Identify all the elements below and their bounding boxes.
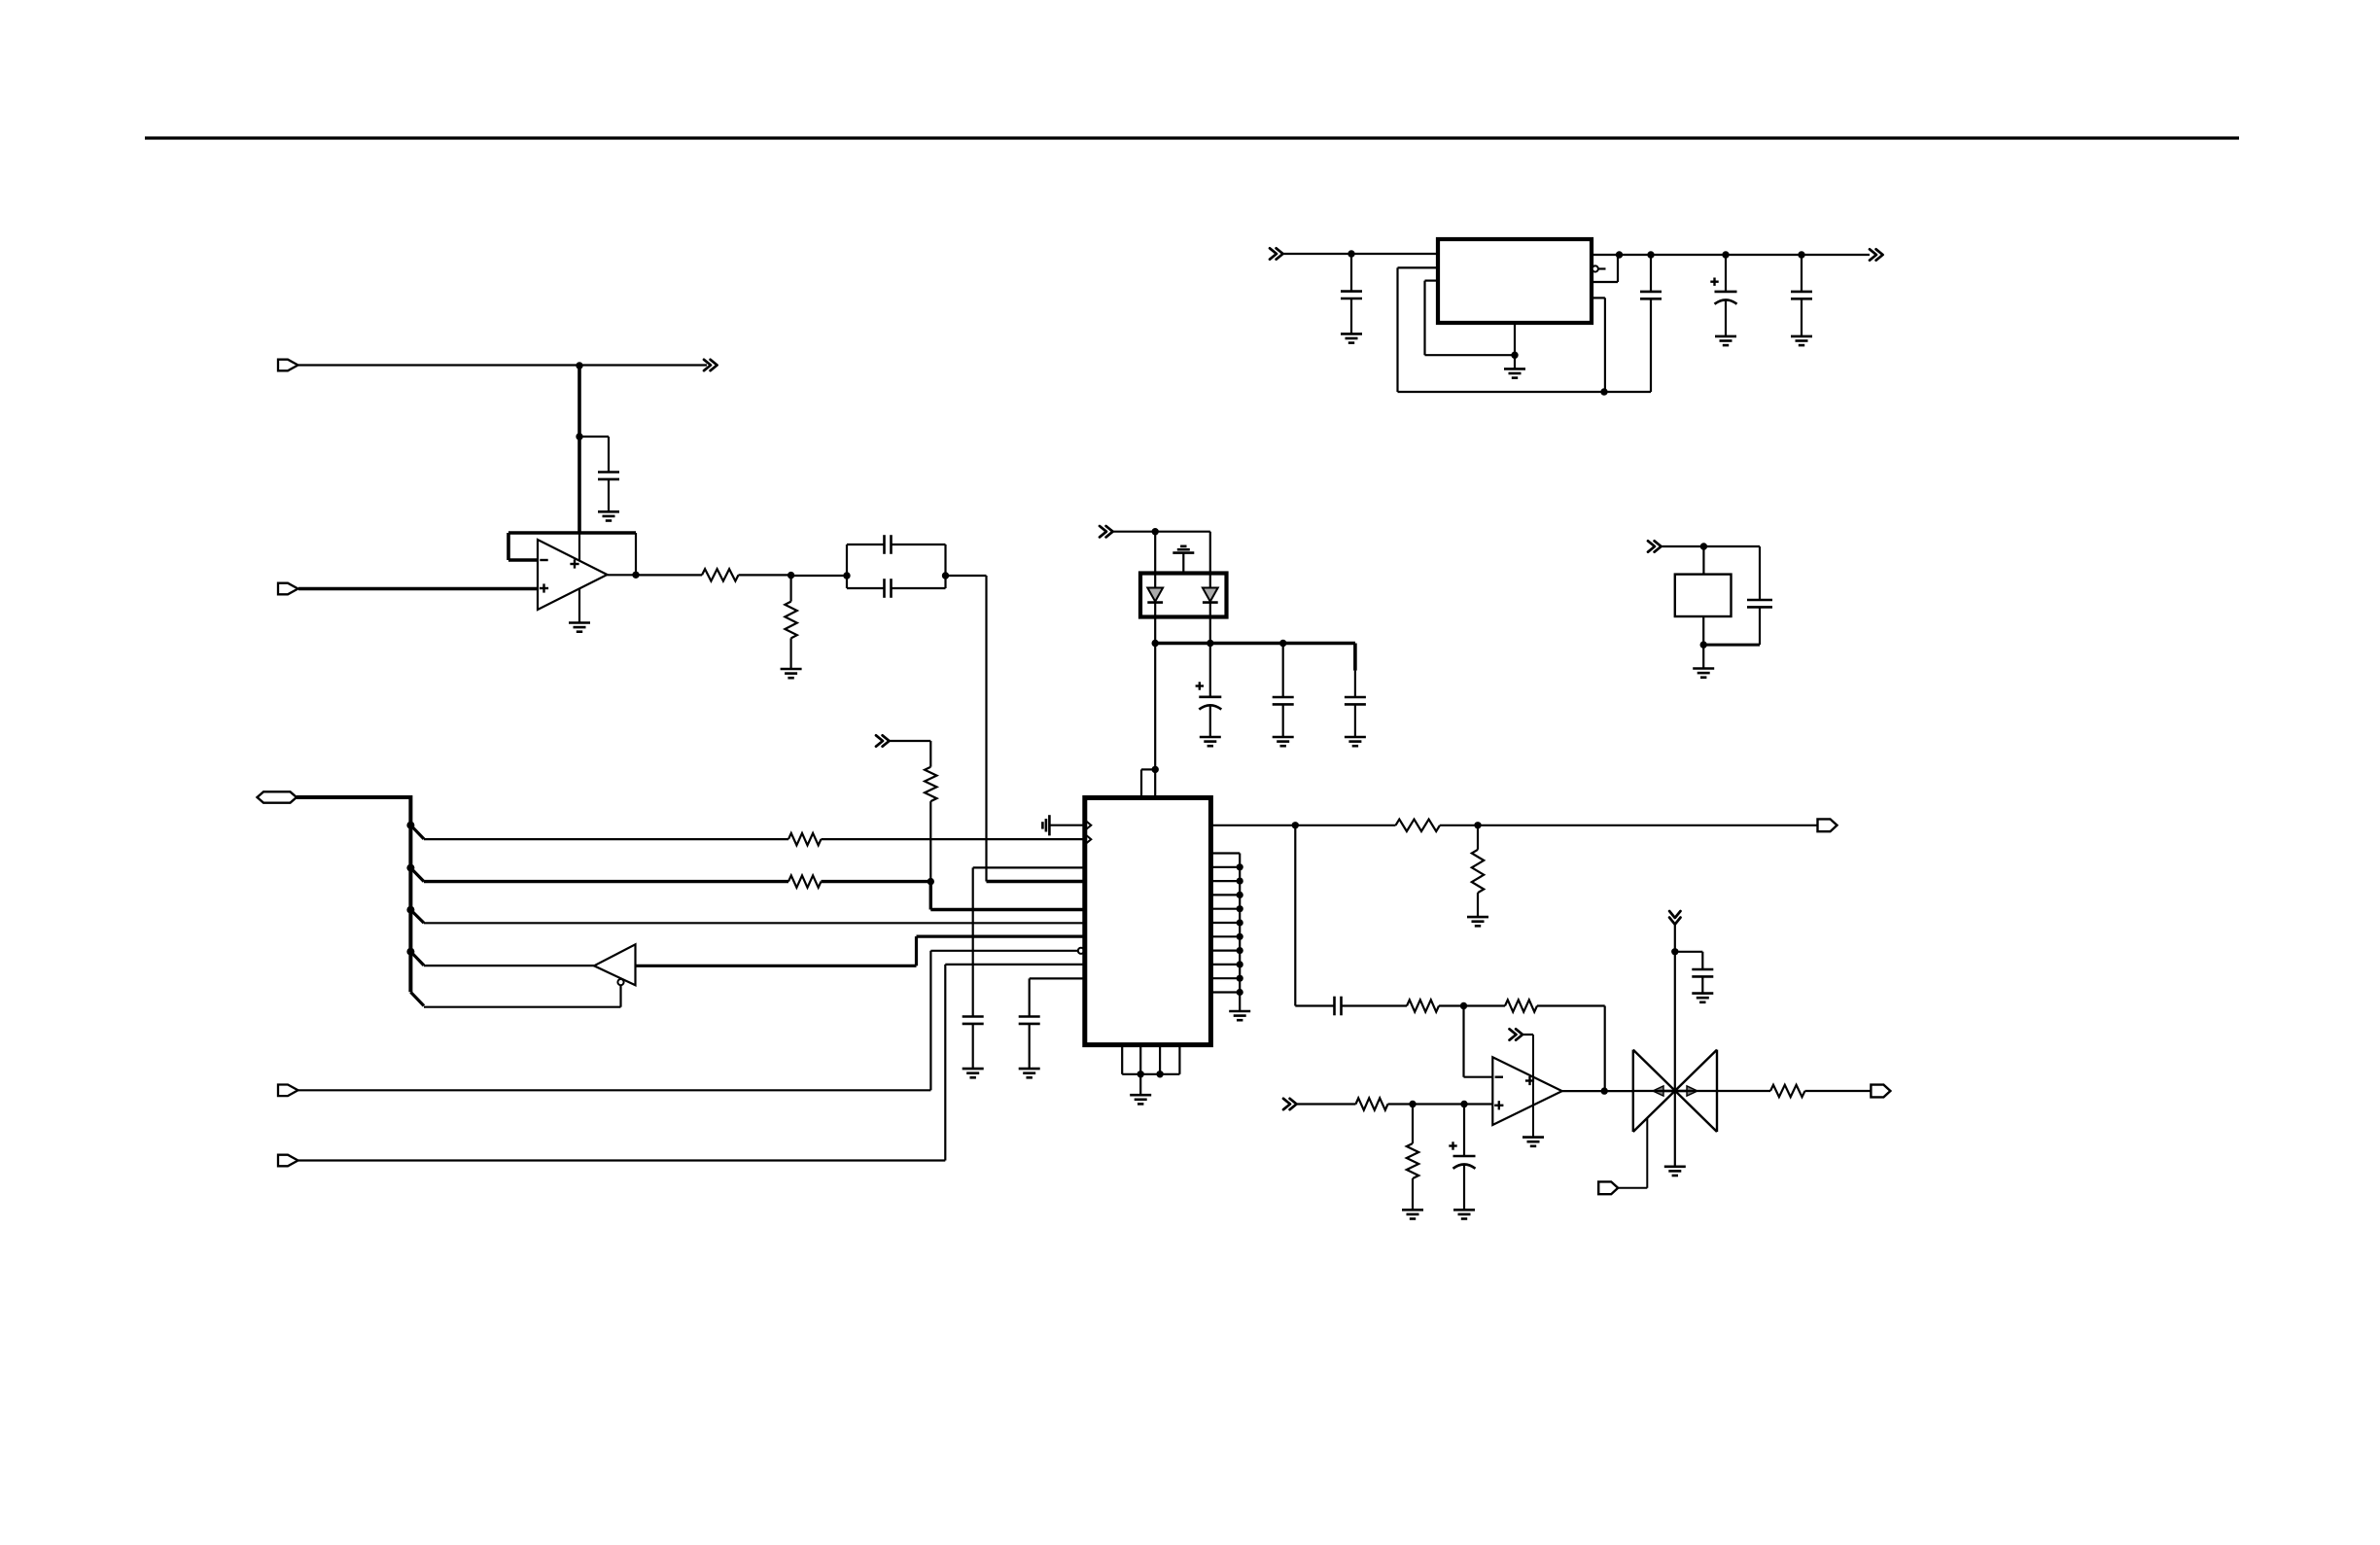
node Y junction bbox=[1279, 640, 1286, 647]
capacitor C2 bbox=[883, 535, 886, 554]
ground R11 bbox=[1402, 1209, 1423, 1211]
ground attenuator center bbox=[1664, 1166, 1686, 1169]
wire C1 to ground bbox=[608, 479, 610, 511]
off-page arrow diode supply bbox=[1100, 526, 1106, 537]
wire pin C drop bbox=[972, 867, 974, 1016]
off-page arrow down feed bbox=[1669, 911, 1680, 918]
bus tap 1 entry bbox=[410, 825, 424, 839]
connector J3 bus entry pad bbox=[258, 791, 297, 802]
wire U2 right pin 11 bbox=[1210, 991, 1240, 993]
node G junction bbox=[927, 878, 934, 885]
wire node C to R1 bbox=[636, 574, 702, 576]
wire C9 to ground bbox=[1801, 298, 1802, 336]
U2 pin A clock mark bbox=[1086, 821, 1092, 830]
U2 pin H inverted circle bbox=[1078, 948, 1084, 954]
wire C9 top bbox=[1801, 255, 1802, 292]
wire U2 right pin 6 bbox=[1210, 922, 1240, 924]
wire C15 to ground bbox=[1463, 1165, 1465, 1211]
wire C7 top bbox=[1650, 255, 1652, 292]
wire feedback right U1 bbox=[635, 533, 637, 575]
node I junction bbox=[1137, 1071, 1144, 1077]
wire node D to R2 bbox=[789, 576, 791, 602]
wire R12 to J8 bbox=[1805, 1090, 1872, 1092]
wire supply rail bold bbox=[1155, 642, 1355, 646]
node U junction bbox=[1700, 641, 1707, 648]
connector J4 pad bbox=[278, 1085, 298, 1097]
wire J4 riser bbox=[929, 951, 931, 1091]
node W junction bbox=[1152, 640, 1159, 647]
ground C4 bbox=[962, 1068, 984, 1071]
node Z junction bbox=[1460, 1002, 1467, 1009]
U5 plus supply label bbox=[1525, 1079, 1534, 1081]
wire attenuator enable drop bbox=[1646, 1118, 1648, 1188]
wire node U to ground bbox=[1702, 645, 1704, 668]
off-page arrow reg output bbox=[1870, 249, 1876, 260]
wire C13 drop bold bbox=[1353, 644, 1357, 671]
capacitor C12 bbox=[1273, 696, 1294, 699]
wire R10 to node AA bbox=[1388, 1103, 1414, 1105]
resistor R1 bbox=[702, 569, 739, 580]
wire U2 right pin 8 bbox=[1210, 949, 1240, 951]
capacitor C6 bbox=[1341, 290, 1362, 293]
wire R1 to node D bbox=[739, 574, 791, 576]
wire J4 long bbox=[298, 1089, 930, 1091]
wire J1 to node A bbox=[298, 364, 579, 366]
node right-bus junction 9 bbox=[1237, 975, 1243, 982]
ground C15 bbox=[1453, 1209, 1475, 1211]
node X junction bbox=[1207, 640, 1213, 647]
wire R5 to node L bbox=[1440, 825, 1478, 826]
wire U4 pin3 drop bbox=[1592, 297, 1605, 298]
wire bottom tie to ground bbox=[1139, 1074, 1141, 1095]
wire C3 bottom right bbox=[892, 587, 946, 589]
wire pin J drop bbox=[1029, 978, 1031, 1016]
wire U4 feedback loop bbox=[1592, 281, 1618, 283]
node Q junction bbox=[1647, 251, 1654, 258]
bus tap 3 entry bbox=[410, 910, 424, 924]
node right-bus junction 6 bbox=[1237, 933, 1243, 940]
capacitor C3 bbox=[883, 579, 886, 598]
wire C5 to ground bbox=[1029, 1024, 1031, 1069]
wire C2 top left bbox=[847, 544, 885, 545]
ground U5 supply bbox=[1522, 1136, 1544, 1139]
wire enable to J7 bbox=[1619, 1187, 1647, 1189]
wire U2 right pin 7 bbox=[1210, 935, 1240, 937]
IC U2 body bbox=[1085, 798, 1211, 1045]
wire node T right bbox=[1703, 545, 1760, 547]
wire J5 long bbox=[298, 1159, 945, 1161]
wire J5 riser bbox=[944, 965, 946, 1161]
capacitor C8 polarized bbox=[1715, 291, 1737, 294]
node N junction bbox=[1600, 388, 1607, 395]
node E junction bbox=[843, 572, 850, 579]
node right-bus junction 8 bbox=[1237, 961, 1243, 967]
wire U4 adj path bbox=[1425, 280, 1439, 282]
wire C11 top bbox=[1209, 644, 1211, 697]
ground U1 supply bbox=[569, 621, 590, 624]
node AA junction bbox=[1409, 1101, 1416, 1107]
node M junction bbox=[1347, 250, 1354, 257]
connector J2 input pad bbox=[278, 583, 298, 595]
capacitor C5 bbox=[1019, 1015, 1040, 1018]
wire tap5 to U3 enable bbox=[424, 1006, 621, 1008]
bus tap 2 entry bbox=[410, 868, 424, 882]
wire U2 right pin 9 bbox=[1210, 964, 1240, 966]
wire tap2 to R4 bold bbox=[424, 880, 788, 883]
U3 enable circle bbox=[617, 979, 623, 985]
ground C12 bbox=[1273, 736, 1294, 739]
node S junction bbox=[1798, 251, 1804, 258]
node V junction bbox=[1152, 528, 1159, 535]
wire xtal input bbox=[1660, 545, 1703, 547]
wire to U2 pin H bbox=[930, 950, 1077, 952]
U1 plus supply label bbox=[570, 563, 578, 565]
wire C7 bottom to rail bbox=[1650, 298, 1652, 392]
bus vertical bold bbox=[408, 795, 412, 992]
wire node AB down bbox=[1463, 1105, 1465, 1157]
U5 minus label bbox=[1495, 1075, 1503, 1077]
wire U2 right pin 3 bbox=[1210, 880, 1240, 882]
ground C1 bbox=[598, 510, 619, 513]
wire C14 to R8 bbox=[1342, 1004, 1408, 1006]
wire node Z down bbox=[1462, 1006, 1464, 1077]
ground C8 bbox=[1715, 335, 1736, 338]
wire U2 pin J stub bbox=[1030, 977, 1085, 979]
wire bottom rail right bbox=[1604, 391, 1651, 393]
crystal Y1 body bbox=[1675, 575, 1732, 616]
wire node AB to U5 bbox=[1464, 1103, 1492, 1105]
wire U2 bottom pin 2 bbox=[1139, 1045, 1141, 1074]
wire C10 bottom bbox=[1759, 607, 1761, 645]
wire node AD down through attenuator bbox=[1674, 952, 1676, 1167]
wire inverting stub U1 bold bbox=[508, 558, 538, 562]
wire inverted ground stem bbox=[1182, 553, 1184, 574]
U1 minus label bbox=[540, 559, 547, 561]
wire through attenuator bbox=[1633, 1090, 1717, 1092]
node T junction bbox=[1700, 543, 1707, 549]
wire long vertical to U2 pin D bbox=[985, 576, 987, 882]
wire feedback top U1 bold bbox=[508, 531, 636, 535]
ground Y1 bbox=[1693, 667, 1714, 670]
U2 pin A rotated ground bbox=[1048, 815, 1051, 835]
diode D2 bbox=[1209, 574, 1211, 588]
resistor R5 bbox=[1396, 820, 1441, 831]
wire node AA to node AB bbox=[1413, 1103, 1464, 1105]
attenuator arrowhead left bbox=[1653, 1086, 1663, 1096]
wire node D to node E bbox=[791, 575, 847, 577]
node J junction bbox=[1156, 1071, 1163, 1077]
wire node B to C1 bbox=[579, 436, 609, 438]
capacitor C14 series bbox=[1333, 997, 1336, 1016]
ground R2 bbox=[781, 668, 802, 671]
wire to U5 inverting bbox=[1464, 1076, 1493, 1078]
wire node L to pad bbox=[1478, 825, 1818, 826]
wire U1 output bbox=[608, 574, 637, 576]
U2 pin B clock mark bbox=[1086, 834, 1092, 844]
capacitor C13 bbox=[1345, 696, 1366, 699]
wire node K corner bbox=[1295, 1004, 1334, 1006]
wire diode rail to U2 top bbox=[1154, 644, 1156, 798]
C15 plus label bbox=[1449, 1144, 1456, 1146]
ground U2 right bus bbox=[1229, 1010, 1250, 1013]
resistor R10 bbox=[1356, 1098, 1388, 1109]
wire C13 to ground bbox=[1354, 704, 1356, 737]
wire C13 drop bbox=[1354, 671, 1356, 697]
wire node AD branch bbox=[1675, 951, 1703, 953]
ground R6 bbox=[1467, 916, 1488, 919]
bus tap 5 entry bbox=[410, 992, 424, 1005]
wire R9 corner down bbox=[1604, 1006, 1606, 1092]
wire R3 to U2 pin B bbox=[822, 838, 1085, 840]
wire U2 bottom pin 1 bbox=[1121, 1045, 1123, 1074]
wire mid corner down bbox=[929, 741, 931, 767]
wire C8 top bbox=[1725, 255, 1727, 292]
wire node V down D1 bbox=[1154, 532, 1156, 574]
wire U5 supply bbox=[1522, 1034, 1534, 1036]
node H junction bbox=[1152, 766, 1159, 773]
U4 inhibit circle bbox=[1592, 265, 1598, 271]
wire node Z to R9 bbox=[1464, 1004, 1506, 1006]
wire U2 bottom pin 4 bbox=[1178, 1045, 1180, 1074]
bus tap 4 junction bbox=[406, 948, 414, 956]
off-page arrow U5 input bbox=[1283, 1099, 1290, 1109]
wire node G to U2 pin E bold bbox=[930, 908, 1085, 911]
connector J7 pad bbox=[1598, 1181, 1618, 1194]
wire C3 bottom left bbox=[847, 587, 885, 589]
ground C11 bbox=[1200, 736, 1221, 739]
attenuator diagonal 1 bbox=[1633, 1050, 1717, 1132]
wire U2 right pin 2 bbox=[1210, 866, 1240, 868]
wire D2 to rail bbox=[1209, 617, 1211, 644]
wire C12 top bbox=[1282, 644, 1284, 698]
attenuator arrow shaft bbox=[1661, 1090, 1690, 1092]
wire R6 to ground bbox=[1477, 893, 1479, 917]
node AD junction bbox=[1671, 948, 1678, 955]
wire J2 to U1 noninverting bold bbox=[298, 587, 538, 591]
wire C16 to ground bbox=[1701, 976, 1703, 993]
ground C9 bbox=[1791, 335, 1812, 338]
U5 plus input label bbox=[1494, 1105, 1503, 1106]
connector J8 output pad bbox=[1871, 1085, 1890, 1098]
off-page arrow U5 supply bbox=[1510, 1029, 1517, 1039]
wire R8 to node Z bbox=[1439, 1004, 1464, 1006]
wire C6 to ground bbox=[1350, 298, 1352, 334]
wire mid arrow right bbox=[888, 740, 930, 742]
wire C2C3 right vertical bbox=[944, 544, 946, 588]
wire U5 output bbox=[1562, 1090, 1633, 1092]
capacitor C15 polarized bbox=[1453, 1155, 1476, 1158]
wire reg input bbox=[1281, 253, 1438, 255]
node right-bus junction 1 bbox=[1237, 863, 1243, 870]
inverter U3 buffer bbox=[594, 944, 636, 985]
wire U2 right pin 10 bbox=[1210, 977, 1240, 979]
wire U2 pin C stub bbox=[973, 866, 1085, 868]
connector J1 input pad bbox=[278, 360, 298, 371]
capacitor C7 bbox=[1640, 291, 1662, 294]
capacitor C1 bbox=[598, 471, 619, 474]
wire arrow to node AD bbox=[1674, 923, 1676, 952]
wire U4 output bbox=[1592, 254, 1870, 256]
node L junction bbox=[1474, 822, 1481, 828]
resistor R8 bbox=[1407, 1000, 1439, 1011]
wire U3 output up bold bbox=[915, 936, 918, 966]
off-page arrow mid bbox=[876, 735, 883, 746]
node P junction bbox=[1616, 251, 1623, 258]
wire node A to off-page arrow bbox=[579, 364, 707, 366]
node O junction bbox=[1511, 352, 1518, 359]
wire U5 input to R10 bbox=[1295, 1103, 1356, 1105]
bus tap 1 junction bbox=[406, 822, 414, 829]
node A junction bbox=[576, 362, 582, 369]
wire U2 right tie bus bbox=[1239, 854, 1241, 1012]
wire node AA down bbox=[1412, 1105, 1414, 1144]
bus tap 3 junction bbox=[406, 906, 414, 914]
attenuator left edge bbox=[1632, 1050, 1634, 1132]
wire node G down bold bbox=[929, 882, 932, 910]
node R junction bbox=[1722, 251, 1729, 258]
resistor R3 bbox=[788, 833, 822, 845]
wire R2 to ground bbox=[789, 638, 791, 669]
node AB junction bbox=[1460, 1101, 1467, 1107]
ground C16 bbox=[1692, 992, 1713, 995]
wire node L to R6 bbox=[1477, 825, 1479, 850]
node B junction bbox=[576, 433, 582, 439]
node right-bus junction 10 bbox=[1237, 989, 1243, 996]
wire U2 right pin 5 bbox=[1210, 908, 1240, 910]
wire C12 to ground bbox=[1282, 704, 1284, 737]
node F junction bbox=[942, 572, 949, 579]
wire node T to Y1 bbox=[1702, 546, 1704, 575]
U4 inhibit dash bbox=[1599, 267, 1606, 269]
resistor R9 bbox=[1505, 1000, 1537, 1011]
inverted ground diode box bbox=[1180, 544, 1186, 547]
node right-bus junction 4 bbox=[1237, 905, 1243, 912]
wire C2C3 left vertical bbox=[846, 544, 848, 588]
wire to U2 pin G bold bbox=[917, 934, 1085, 937]
node K junction bbox=[1292, 822, 1299, 828]
ground U2 bottom bbox=[1130, 1094, 1151, 1097]
off-page arrow reg input bbox=[1270, 248, 1277, 259]
node D junction bbox=[787, 572, 794, 579]
wire node F right bbox=[946, 575, 987, 577]
wire C8 to ground bbox=[1725, 300, 1727, 336]
capacitor C16 bbox=[1692, 968, 1713, 971]
capacitor C9 bbox=[1791, 291, 1812, 294]
connector J5 pad bbox=[278, 1155, 298, 1167]
wire attenuator out to R12 bbox=[1717, 1090, 1770, 1092]
wire D1 to rail bbox=[1154, 617, 1156, 644]
op-amp U5 bbox=[1492, 1057, 1561, 1125]
bus tap 4 entry bbox=[410, 952, 424, 966]
wire tap3 to U2 pin F bbox=[424, 922, 1085, 924]
wire supply through op-amp to ground bbox=[578, 533, 580, 623]
capacitor C10 bbox=[1747, 599, 1772, 602]
wire U2 top jog bbox=[1141, 768, 1155, 770]
wire U2 bottom pin 3 bbox=[1159, 1045, 1161, 1074]
C11 plus label bbox=[1196, 685, 1204, 686]
capacitor C4 bbox=[962, 1015, 984, 1018]
node right-bus junction 7 bbox=[1237, 947, 1243, 954]
capacitor C11 polarized bbox=[1199, 695, 1221, 698]
wire U4 gnd pin bbox=[1514, 323, 1516, 355]
resistor R12 bbox=[1770, 1085, 1805, 1097]
wire R11 to ground bbox=[1412, 1178, 1414, 1210]
off-page arrow xtal bbox=[1648, 541, 1655, 551]
wire node K drop bbox=[1294, 825, 1296, 1006]
wire R4 to node G bold bbox=[822, 880, 931, 883]
wire into U2 pin D bold bbox=[987, 880, 1085, 883]
wire ground to U2 pin A bbox=[1049, 825, 1084, 826]
wire tap1 to R3 bbox=[424, 838, 788, 840]
wire U4 sense pin bbox=[1398, 266, 1439, 268]
resistor R4 bbox=[788, 875, 822, 887]
wire to U2 pin I bbox=[945, 964, 1085, 966]
op-amp U1 bbox=[538, 540, 608, 610]
diode pack D1 D2 body bbox=[1140, 574, 1227, 617]
U1 plus input label bbox=[540, 587, 548, 589]
wire C11 to ground bbox=[1209, 705, 1211, 737]
ground C6 bbox=[1341, 333, 1362, 335]
node right-bus junction 5 bbox=[1237, 919, 1243, 926]
node right-bus junction 2 bbox=[1237, 878, 1243, 885]
resistor R7 bbox=[925, 767, 936, 801]
wire supply to node V bbox=[1111, 531, 1155, 533]
ground U4 bbox=[1504, 368, 1525, 370]
wire C2 top right bbox=[892, 544, 946, 545]
wire C4 to ground bbox=[972, 1024, 974, 1069]
wire R7 to node G bbox=[929, 801, 931, 882]
attenuator arrowhead right bbox=[1687, 1086, 1697, 1096]
attenuator diagonal 2 bbox=[1633, 1050, 1717, 1132]
diode D1 bbox=[1154, 574, 1156, 588]
regulator U4 body bbox=[1438, 239, 1592, 323]
wire U2 right pin 4 bbox=[1210, 894, 1240, 895]
node right-bus junction 3 bbox=[1237, 892, 1243, 898]
wire corner down D2 bbox=[1209, 532, 1211, 574]
wire node M to C6 bbox=[1350, 254, 1352, 292]
wire node O to ground bbox=[1514, 355, 1516, 369]
C8 plus label bbox=[1710, 281, 1718, 283]
wire U2 right pin 1 bbox=[1210, 852, 1240, 854]
wire top horizontal rule bbox=[145, 136, 2239, 139]
wire C10 return bold bbox=[1703, 644, 1760, 647]
wire U2 bottom tie bbox=[1122, 1073, 1179, 1075]
wire feedback left U1 bold bbox=[507, 533, 510, 560]
wire node V right bbox=[1155, 531, 1210, 533]
wire supply drop bold bbox=[577, 366, 581, 533]
attenuator right edge bbox=[1716, 1050, 1718, 1132]
resistor R11 bbox=[1407, 1143, 1418, 1178]
wire U3 output bold bbox=[636, 965, 917, 967]
wire tap4 to inverter U3 bbox=[424, 965, 594, 966]
off-page arrow right bbox=[704, 360, 711, 370]
wire R9 right bbox=[1537, 1004, 1605, 1006]
bus horizontal bold bbox=[297, 795, 410, 799]
wire U3 enable drop bbox=[619, 985, 621, 1006]
wire C10 drop bbox=[1759, 546, 1761, 600]
connector J6 output pad bbox=[1818, 819, 1837, 831]
node C junction bbox=[632, 572, 639, 579]
resistor R2 bbox=[785, 602, 796, 639]
wire Y1 bottom bbox=[1702, 616, 1704, 645]
bus tap 2 junction bbox=[406, 864, 414, 872]
node AC junction bbox=[1601, 1087, 1608, 1094]
ground C13 bbox=[1345, 736, 1366, 739]
resistor R6 bbox=[1472, 850, 1484, 893]
ground C5 bbox=[1019, 1068, 1040, 1071]
wire U2 pin out right bbox=[1210, 825, 1395, 826]
